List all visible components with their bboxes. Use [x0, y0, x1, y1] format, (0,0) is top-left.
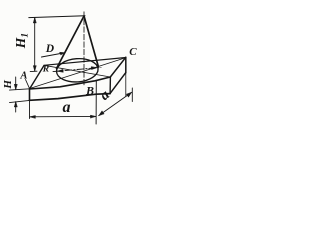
top face back edge	[44, 58, 126, 66]
H1 top extension line	[29, 16, 85, 18]
svg-text:A: A	[19, 71, 27, 82]
right back vertical edge	[125, 57, 127, 72]
svg-text:R: R	[42, 64, 49, 74]
top face left edge	[30, 66, 45, 90]
cone axis center line	[83, 12, 85, 86]
svg-text:a: a	[63, 99, 71, 116]
top face diagonal A-C	[31, 58, 126, 88]
H1 arrow up	[33, 17, 36, 23]
diag ext from back corner	[125, 73, 127, 97]
a diagonal dimension line	[99, 92, 132, 115]
cone base ellipse	[56, 57, 99, 83]
H1 dimension line	[34, 18, 36, 72]
A label leader	[26, 80, 30, 89]
D label leader with arrow	[42, 53, 64, 57]
cone right slant	[84, 16, 98, 66]
D diameter arrow left	[57, 69, 63, 72]
H top extension line	[10, 89, 30, 90]
a bottom left extension line	[29, 101, 31, 119]
circle horizontal centre line	[53, 67, 101, 71]
H arrow up	[14, 102, 17, 107]
a diagonal arrow upper	[126, 92, 131, 97]
slab front-right vertical edge	[109, 77, 111, 94]
svg-text:H: H	[2, 80, 14, 90]
a bottom arrow right	[90, 115, 96, 118]
H dim line lower segment	[15, 102, 17, 112]
a bottom dimension line	[30, 115, 96, 117]
H dim line upper segment	[15, 77, 17, 90]
a diagonal extension line	[131, 88, 133, 102]
slab left vertical edge	[29, 89, 31, 101]
slab front bottom edge	[30, 94, 111, 101]
svg-text:B: B	[85, 83, 94, 97]
a bottom right extension line	[95, 80, 97, 124]
slab front top edge	[30, 77, 111, 89]
H1 arrow down	[33, 66, 36, 72]
a diagonal arrow lower	[99, 111, 104, 116]
right face bottom edge	[110, 73, 126, 94]
H1 lower extension tick	[30, 70, 37, 72]
D diameter arrow right	[91, 67, 97, 70]
svg-text:D: D	[45, 43, 55, 55]
cone left slant	[57, 16, 85, 69]
H arrow down	[14, 84, 17, 89]
top face diagonal BL-TR	[44, 65, 110, 77]
H bottom extension line	[10, 100, 30, 102]
svg-text:C: C	[129, 46, 137, 58]
a bottom arrow left	[30, 115, 36, 118]
right face top edge	[110, 57, 126, 77]
